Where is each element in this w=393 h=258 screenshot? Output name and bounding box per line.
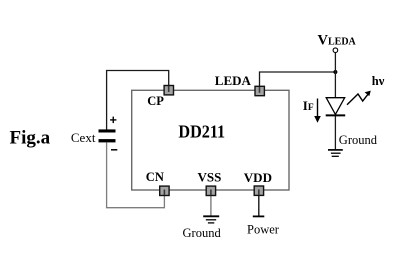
svg-text:CP: CP <box>147 94 164 108</box>
node junction at VLEDA rail <box>333 70 337 74</box>
pin VSS pad <box>206 186 215 195</box>
wire capacitor bottom to bottom rail <box>106 142 108 207</box>
svg-text:Ground: Ground <box>339 133 378 147</box>
ground left (VSS) <box>203 216 219 223</box>
wire bottom rail to CN <box>106 195 164 208</box>
wire CP to capacitor top <box>107 71 169 131</box>
power terminal bar <box>253 215 264 217</box>
wire LEDA to VLEDA rail <box>260 72 336 90</box>
svg-text:Cext: Cext <box>71 130 96 145</box>
pin CP pad <box>164 86 173 95</box>
svg-text:DD211: DD211 <box>178 122 225 142</box>
wire VDD to power terminal <box>258 195 260 216</box>
LED D1 cathode bar <box>326 114 346 116</box>
pin VDD pad <box>254 186 263 195</box>
capacitor C ext bottom plate <box>99 139 116 142</box>
wire VSS to ground <box>210 195 212 216</box>
svg-text:VDD: VDD <box>244 170 272 185</box>
svg-text:Ground: Ground <box>183 226 222 240</box>
svg-text:CN: CN <box>146 170 164 184</box>
terminal VLEDA circle <box>333 48 338 53</box>
light emission arrow hv <box>347 93 369 105</box>
LED D1 triangle <box>326 98 345 115</box>
svg-text:LEDA: LEDA <box>215 73 252 88</box>
current arrow IF <box>317 99 319 118</box>
svg-text:Power: Power <box>247 223 280 237</box>
pin CN pad <box>160 186 169 195</box>
ground right (LED) <box>328 150 343 156</box>
svg-text:Fig.a: Fig.a <box>10 127 51 148</box>
svg-text:hν: hν <box>372 74 385 88</box>
svg-text:VSS: VSS <box>198 169 222 184</box>
minus mark <box>111 149 117 151</box>
capacitor C ext top plate <box>99 129 116 132</box>
wire LED cathode to ground <box>334 116 336 149</box>
plus mark <box>110 117 116 124</box>
IC U1 DD211 body <box>132 90 289 190</box>
wire VLEDA terminal to LED anode <box>334 53 336 98</box>
pin LEDA pad <box>255 86 264 95</box>
